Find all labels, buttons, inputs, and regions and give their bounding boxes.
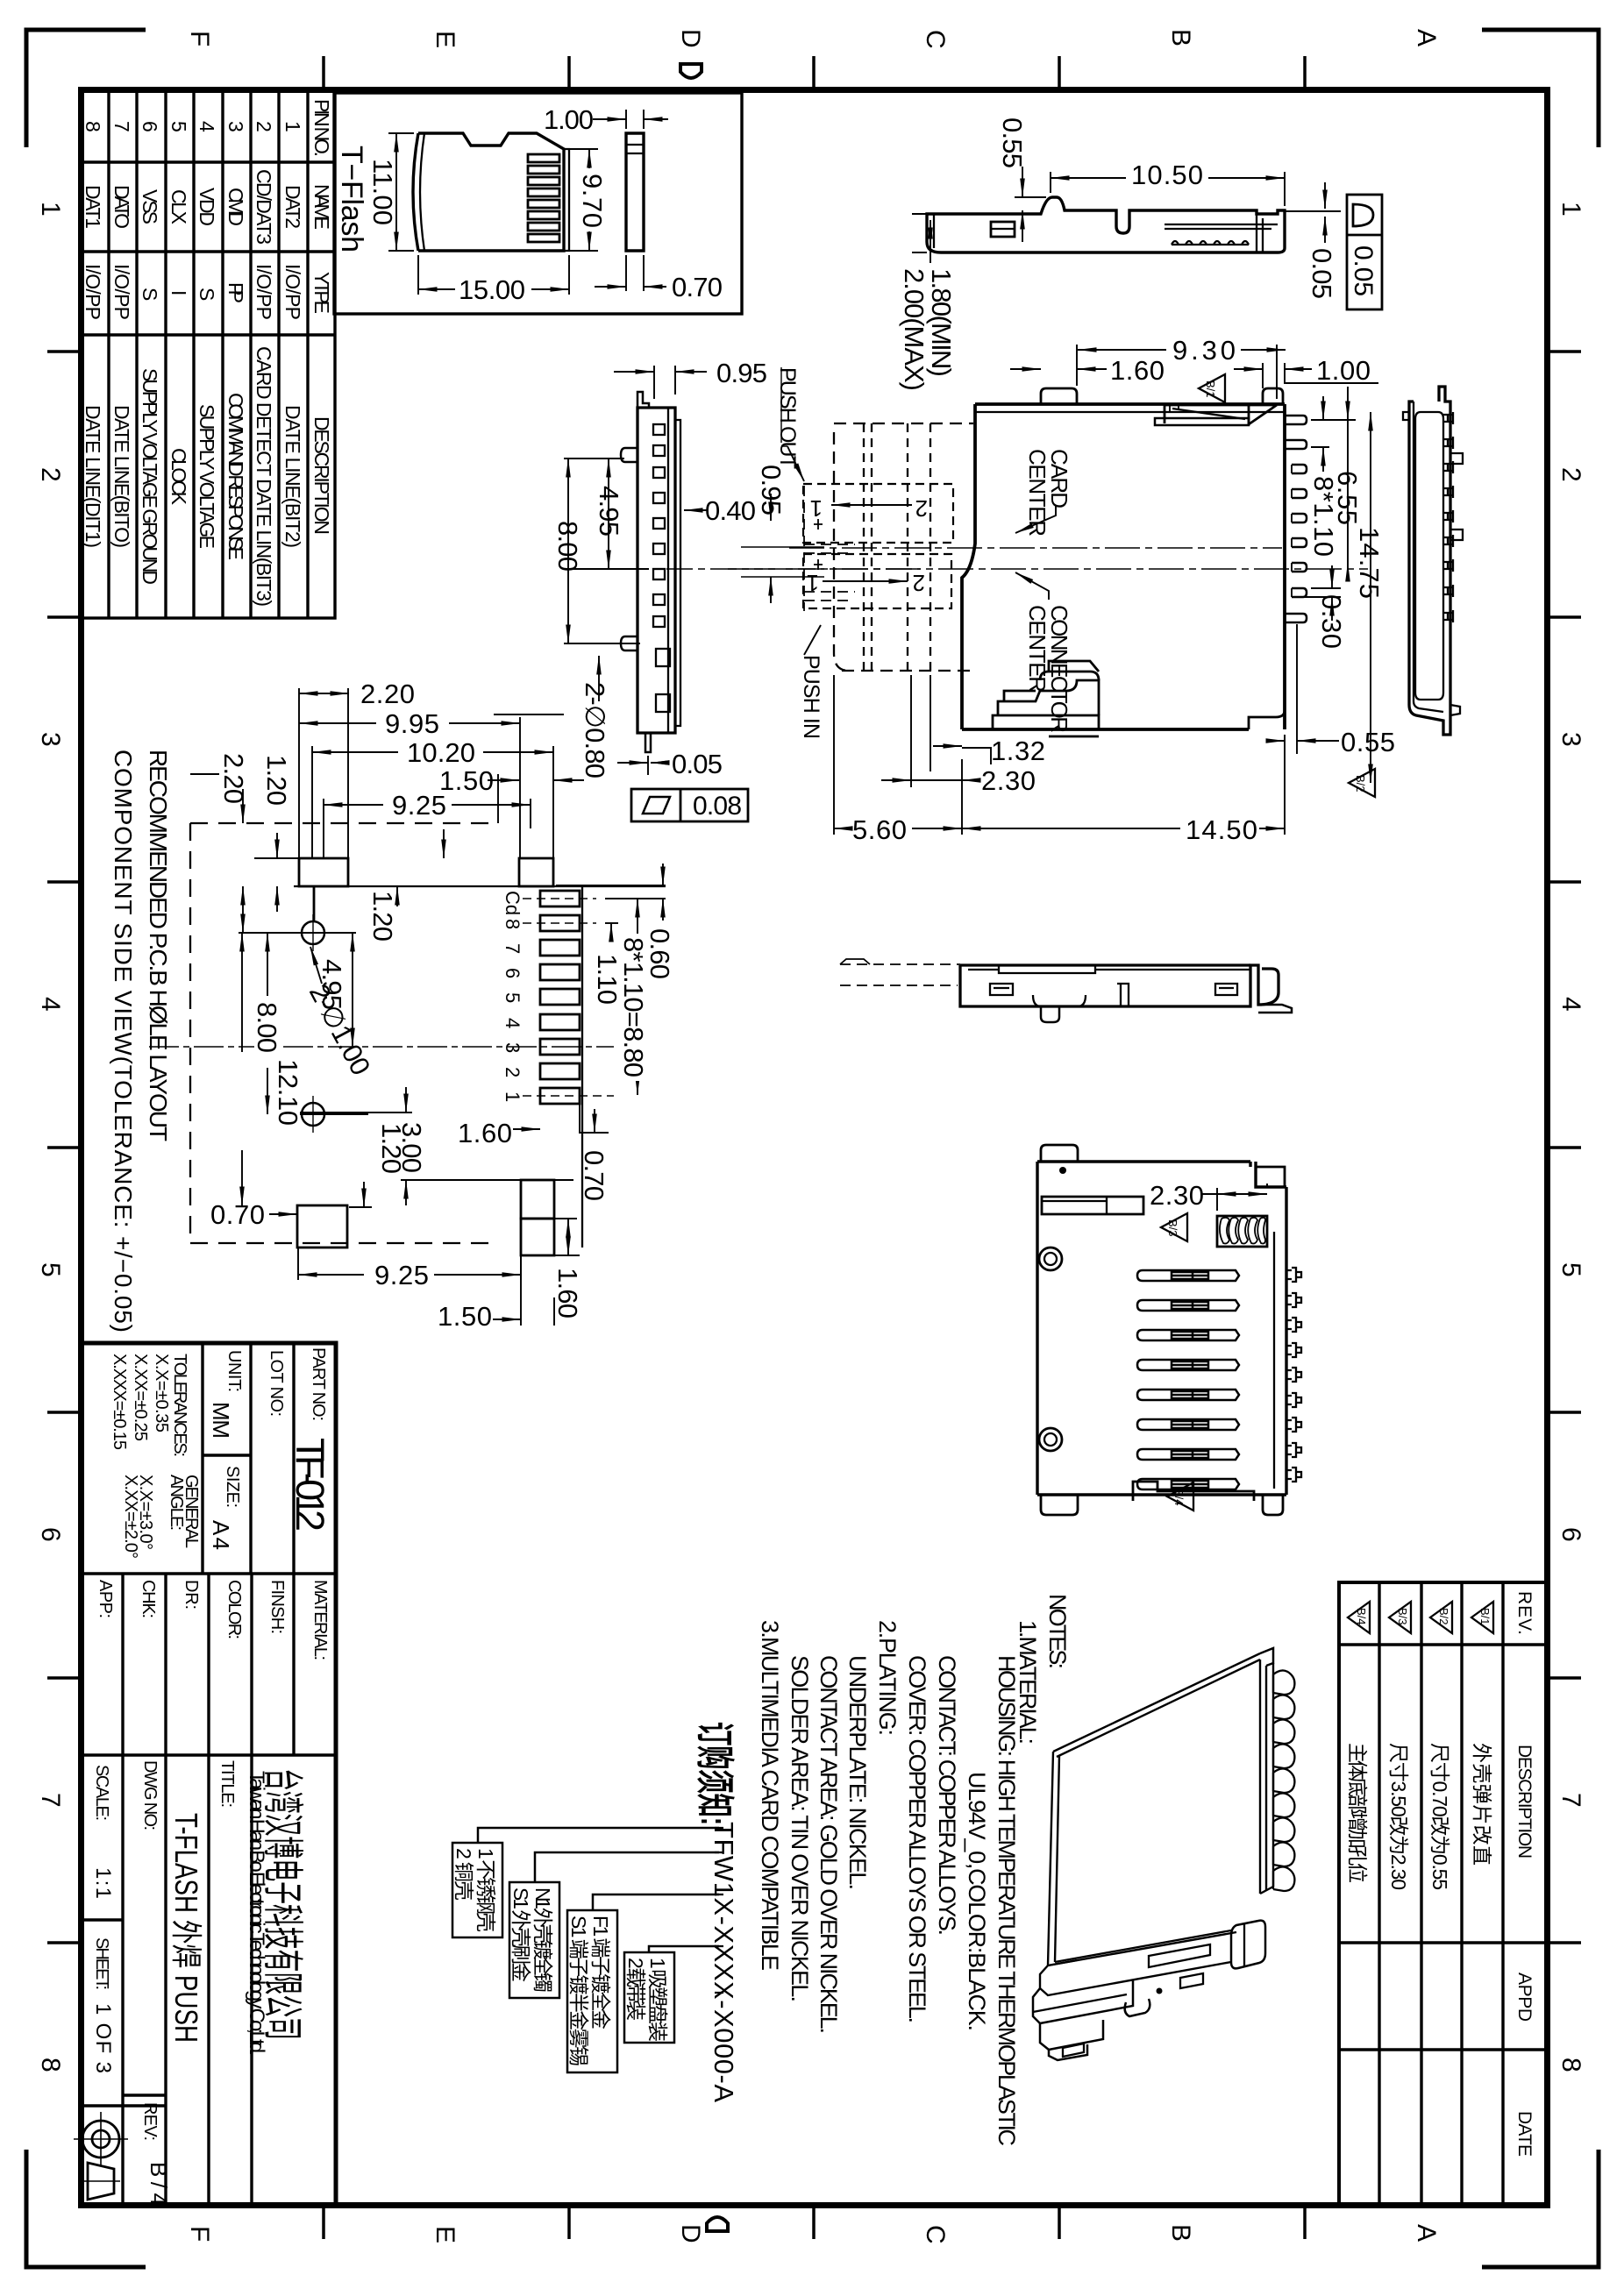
0.95 top [654,366,675,399]
svg-text:0.70: 0.70 [579,1150,609,1201]
svg-text:CONTACT: COPPER ALLOYS.: CONTACT: COPPER ALLOYS. [934,1655,960,1936]
svg-text:9.95: 9.95 [385,708,439,739]
dims for side view B [564,366,921,655]
small dot [1059,1167,1066,1174]
2.20 top [299,693,349,694]
svg-text:HOUSING: HIGH TEMPERATURE THER: HOUSING: HIGH TEMPERATURE THERMOPLASTIC [994,1655,1020,2146]
svg-text:2-∅0.80: 2-∅0.80 [580,682,610,778]
latch flap top right [1165,405,1277,425]
svg-text:I: I [167,290,190,295]
svg-text:F: F [185,31,214,46]
2-Φ0.80 and 0.05 dims below side view B [617,756,668,775]
svg-text:VDD: VDD [196,188,218,226]
svg-text:0.95: 0.95 [716,358,767,388]
svg-text:5.60: 5.60 [852,814,907,845]
bottom right foot [1231,1921,1265,1969]
box 1 [452,1843,502,1937]
svg-text:DR:: DR: [182,1580,201,1610]
svg-text:8*1.10: 8*1.10 [1308,476,1339,557]
corner mark top-right [1482,30,1599,147]
svg-text:B/4: B/4 [146,2162,172,2206]
main strip [637,408,675,733]
svg-text:S: S [196,288,218,301]
svg-text:TF-012: TF-012 [288,1438,332,1532]
bottom rail [1040,1962,1231,1995]
svg-text:C: C [921,2225,950,2244]
scale / dwg / sheet [91,1760,172,2206]
0.70 bottom left [269,1213,297,1215]
svg-text:1: 1 [36,202,65,217]
top right flag [1260,1648,1273,1666]
svg-text:CONTACT AREA: GOLD OVER NICKEL: CONTACT AREA: GOLD OVER NICKEL. [816,1655,842,2034]
1.60 bottom right vertical [554,1219,580,1255]
svg-text:4: 4 [196,121,218,132]
svg-text:S1 端子镀半金雾锡: S1 端子镀半金雾锡 [567,1916,590,2066]
svg-text:5: 5 [502,992,524,1003]
svg-text:DAT2: DAT2 [281,185,304,229]
inner window [991,222,1015,237]
body outline [962,404,975,729]
svg-text:E: E [431,2226,459,2243]
svg-text:1 不锈钢壳: 1 不锈钢壳 [474,1848,497,1932]
box 4 [624,1952,674,2043]
svg-text:10.50: 10.50 [1131,160,1203,190]
band 1 columns [203,1343,294,1574]
0.40 [684,509,707,511]
svg-text:B/3: B/3 [1396,1608,1409,1625]
6.55 [1311,419,1356,421]
right body edge with pins [1283,404,1286,729]
svg-text:CLOCK: CLOCK [167,448,190,506]
center lines [728,548,1368,569]
zone ticks top [324,56,1305,87]
svg-text:1.20: 1.20 [367,891,398,942]
card fingers [528,154,559,242]
svg-text:3: 3 [1556,732,1585,747]
svg-text:DATE LINE(BIT2): DATE LINE(BIT2) [281,405,304,548]
4.95 / 8.00 [564,458,649,569]
right side view pins [1443,412,1463,622]
svg-text:订购须知:: 订购须知: [693,1722,736,1825]
svg-text:B/1: B/1 [1478,1608,1492,1625]
svg-text:I/O/PP: I/O/PP [253,264,275,320]
10.20 [312,751,398,753]
svg-text:2 载带装: 2 载带装 [624,1958,647,2021]
svg-text:外壳弹片改直: 外壳弹片改直 [1471,1743,1493,1866]
svg-text:1.50: 1.50 [439,765,494,796]
svg-text:B/4: B/4 [1355,1608,1368,1625]
4.95 [352,933,353,943]
svg-text:0.05: 0.05 [672,749,723,779]
PCB dims [190,688,609,1326]
1.60 mid right [513,1128,540,1130]
svg-text:2.PLATING:: 2.PLATING: [874,1620,901,1736]
dashed centerlines through pads [149,899,614,1096]
svg-text:UNDERPLATE: NICKEL.: UNDERPLATE: NICKEL. [844,1655,871,1890]
svg-text:B/4: B/4 [1172,1489,1186,1506]
svg-text:9.25: 9.25 [392,790,446,821]
svg-text:MM: MM [208,1402,234,1439]
svg-text:1.00: 1.00 [544,104,594,135]
svg-text:ANGLE:: ANGLE: [167,1475,186,1531]
svg-text:B/3: B/3 [1166,1219,1179,1237]
svg-text:1.60: 1.60 [458,1118,512,1148]
flatness feature control frame [1347,195,1382,309]
5.60 / 14.50 [834,675,1285,835]
svg-text:DAT1: DAT1 [82,185,104,229]
svg-text:6: 6 [1556,1527,1585,1542]
svg-text:B: B [1166,2224,1195,2242]
dim 11.00 [388,133,414,251]
9.25 bottom [298,1248,521,1280]
svg-text:DESCRIPTION: DESCRIPTION [310,416,333,535]
B/1 triangle [1199,374,1225,402]
svg-text:0.08: 0.08 [693,792,742,821]
svg-text:8.00: 8.00 [552,521,583,572]
right inner edge + pins [1273,1232,1275,1489]
svg-text:DATE: DATE [1514,2111,1535,2157]
1.20 left (pad height) [254,857,298,859]
corner mark top-left [26,30,146,147]
mounting holes [1039,1248,1062,1270]
svg-text:C: C [921,30,950,49]
dashed card for side view B [804,486,855,611]
svg-text:SOLDER AREA: TIN OVER NICKEL.: SOLDER AREA: TIN OVER NICKEL. [787,1655,813,2002]
corner mark bottom-right [1482,2150,1599,2267]
corner mark bottom-left [26,2150,146,2267]
push out leader [787,446,804,481]
svg-text:1 吸塑盘装: 1 吸塑盘装 [646,1958,669,2042]
svg-text:COVER: COPPER ALLOYS OR STEEL.: COVER: COPPER ALLOYS OR STEEL. [904,1655,930,2023]
top-left slot [1042,1197,1143,1214]
svg-text:DATO: DATO [110,185,133,229]
svg-text:F: F [185,2226,214,2242]
svg-text:UNIT:: UNIT: [224,1350,244,1392]
svg-text:UL94V_0,COLOR:BLACK.: UL94V_0,COLOR:BLACK. [964,1772,990,2031]
centerline [579,568,921,570]
svg-text:FINSH:: FINSH: [267,1580,287,1634]
svg-text:NOTES:: NOTES: [1044,1594,1071,1669]
svg-text:COMPONENT SIDE VIEW(TOLERANCE:: COMPONENT SIDE VIEW(TOLERANCE: +/−0.05) [110,750,137,1333]
svg-text:X.XXX=±0.15: X.XXX=±0.15 [110,1354,129,1450]
svg-text:CARD DETECT DATE LIN(BIT3): CARD DETECT DATE LIN(BIT3) [253,346,275,607]
pins right side of main view [1285,416,1307,622]
svg-text:PART NO:: PART NO: [309,1347,328,1421]
svg-text:2.00(MAX): 2.00(MAX) [899,268,930,391]
svg-text:10.20: 10.20 [407,737,475,768]
svg-text:1.80(MIN): 1.80(MIN) [926,268,957,377]
svg-text:Cd: Cd [502,891,524,915]
svg-text:11.00: 11.00 [367,159,398,225]
svg-text:CLX: CLX [167,189,190,224]
svg-text:APPD: APPD [1514,1973,1535,2022]
svg-text:7: 7 [1556,1793,1585,1808]
svg-text:1.10: 1.10 [592,954,623,1005]
outline [1037,1162,1286,1495]
svg-text:3: 3 [224,121,247,132]
dim 9.70 [569,149,598,251]
svg-text:6: 6 [139,121,161,132]
svg-text:2: 2 [913,570,925,596]
dashed body outline [190,823,491,1243]
svg-text:6: 6 [36,1527,65,1542]
svg-text:MATERIAL:: MATERIAL: [310,1580,330,1660]
svg-text:1.60: 1.60 [1110,355,1165,386]
14.75 [1370,412,1371,783]
corner feet [1041,1145,1078,1162]
svg-text:TFW1X-XXXX-X000-A: TFW1X-XXXX-X000-A [709,1822,739,2102]
svg-text:2.30: 2.30 [1150,1180,1204,1211]
parallelism feature control frame [631,789,748,821]
9.95 [299,722,376,724]
svg-text:0.95: 0.95 [756,465,787,515]
svg-text:1 OF 3: 1 OF 3 [91,2003,115,2073]
svg-text:8: 8 [502,919,524,929]
svg-text:1: 1 [281,121,304,132]
svg-text:1.50: 1.50 [438,1301,492,1332]
push position dashed boxes [803,484,953,608]
lid plate with spring teeth [1165,224,1278,229]
svg-text:2: 2 [1556,467,1585,482]
0.30 [1292,588,1341,597]
svg-text:0.05: 0.05 [1307,248,1337,299]
dim 1.80/2.00 [912,214,927,252]
svg-text:3: 3 [36,732,65,747]
svg-text:SIZE:: SIZE: [223,1466,242,1508]
svg-text:0.70: 0.70 [210,1199,265,1230]
svg-text:YTPE: YTPE [310,272,333,314]
svg-text:5: 5 [36,1262,65,1277]
svg-text:1.20: 1.20 [261,755,292,806]
dim 15.00 [418,255,569,295]
1.20 bottom [349,1206,372,1208]
svg-text:0.40: 0.40 [705,495,756,526]
dim 0.70 [626,255,644,291]
svg-text:0.05: 0.05 [1349,245,1378,296]
svg-text:APP:: APP: [96,1580,115,1618]
svg-text:1: 1 [1556,202,1585,217]
svg-text:2.30: 2.30 [981,765,1036,796]
svg-text:2.20: 2.20 [218,753,249,804]
svg-text:CD/DAT3: CD/DAT3 [253,169,275,245]
svg-text:4: 4 [1556,997,1585,1012]
svg-text:14.50: 14.50 [1186,814,1257,845]
svg-text:TOLERANCES:: TOLERANCES: [170,1354,189,1457]
svg-text:RECOMMENDED P.C.B HØLE LAYOUT: RECOMMENDED P.C.B HØLE LAYOUT [145,750,172,1141]
svg-text:3.MULTIMEDIA CARD COMPATIBLE: 3.MULTIMEDIA CARD COMPATIBLE [757,1620,783,1971]
svg-text:2: 2 [36,467,65,482]
zone ticks right [1550,352,1581,1943]
svg-text:4: 4 [36,997,65,1012]
svg-text:1: 1 [810,495,823,522]
svg-text:1:1: 1:1 [91,1867,115,1899]
svg-text:SUPPLY VOLTAGE GROUND: SUPPLY VOLTAGE GROUND [139,368,161,585]
box 2 [509,1882,559,1998]
1.20 mid (right pad) [396,886,398,906]
cover panel [1053,1653,1260,1757]
dashed card in main view [834,423,973,671]
bottom-left step notch [1133,1482,1254,1501]
svg-text:SHEET:: SHEET: [92,1937,111,1990]
svg-text:REV:: REV: [140,2102,160,2141]
svg-text:2: 2 [253,121,275,132]
center tab below rail [1125,1999,1150,2016]
svg-text:S1 外壳刷金: S1 外壳刷金 [509,1887,532,1982]
svg-text:SCALE:: SCALE: [92,1765,111,1821]
body outline [927,197,1285,252]
svg-text:8: 8 [36,2058,65,2072]
B/3 triangle [1161,1213,1187,1241]
zone ticks bottom [324,2208,1305,2239]
svg-text:PIN NO.: PIN NO. [310,99,333,157]
svg-text:B/2: B/2 [1354,775,1367,793]
main view dims [834,345,1378,835]
svg-text:T−Flash: T−Flash [335,146,368,252]
svg-text:X.XX=±2.0°: X.XX=±2.0° [121,1475,140,1559]
svg-text:9.70: 9.70 [577,174,608,228]
8.00 [267,933,268,1114]
svg-text:PUSH IN: PUSH IN [799,655,823,739]
B/2 triangle below 0.55 [1349,769,1375,797]
heading text [110,750,172,1333]
svg-text:9.30: 9.30 [1172,335,1236,366]
pad area dims right: 0.60 / 8*1.10=8.80 / 1.10 [556,864,666,1095]
horizontal hole ref line [239,932,356,934]
bottom latch mechanism [993,715,1099,729]
inner pin squares [653,424,670,712]
top pad row [299,858,348,886]
B/4 triangle [1167,1482,1193,1511]
spring [1217,1216,1267,1247]
box 3 [567,1910,617,2072]
svg-text:7: 7 [502,943,524,954]
top tabs [1041,388,1077,404]
bottom tail [645,733,651,752]
dim 0.55 [1015,196,1046,198]
svg-text:X.XX=±0.25: X.XX=±0.25 [131,1354,150,1441]
svg-text:PUSH OUT: PUSH OUT [775,367,800,469]
side view sliver [626,133,644,251]
svg-text:8.00: 8.00 [252,1002,282,1053]
svg-text:PP: PP [224,282,247,303]
8*1.10 [1311,446,1329,448]
svg-text:D: D [676,2224,705,2243]
svg-text:N1 外壳镀全镯: N1 外壳镀全镯 [531,1887,554,1993]
svg-text:0.70: 0.70 [672,272,723,302]
svg-text:A: A [1412,29,1441,46]
12.10 [241,933,243,1205]
0.55 bottom [1296,624,1298,754]
svg-text:A: A [1412,2224,1441,2242]
svg-text:8: 8 [82,121,104,132]
svg-text:4: 4 [502,1018,524,1028]
0.70 right vertical [580,1104,609,1134]
2.30 [911,675,930,787]
center mark bottom [707,2217,728,2231]
hole2 crosshair ref [282,1113,368,1115]
bottom pads [297,1205,347,1248]
card outline [418,133,564,251]
svg-text:1.60: 1.60 [552,1268,583,1319]
svg-text:DESCRIPTION: DESCRIPTION [1514,1745,1535,1859]
0.95 card offset [770,494,772,521]
dim 10.50 [1051,172,1285,206]
dim 0.05 right [1285,210,1341,212]
svg-text:8: 8 [1556,2058,1585,2072]
band 2/3 columns [123,1574,252,2206]
svg-text:B: B [1166,29,1195,46]
svg-text:主体底部增加孔位: 主体底部增加孔位 [1346,1743,1369,1883]
svg-text:9.25: 9.25 [374,1260,429,1290]
svg-text:LOT NO:: LOT NO: [267,1350,286,1417]
svg-text:I/O/PP: I/O/PP [82,264,104,320]
pad labels [502,891,524,1102]
1.50 bottom [521,1255,554,1326]
signal pads column [540,891,580,1104]
push in leader [804,625,821,655]
1.32 [962,748,991,764]
1.50 [497,774,499,823]
9.30 [1077,345,1285,399]
svg-text:COLOR:: COLOR: [224,1580,244,1639]
1.00 right [1262,363,1264,388]
zone ticks left [47,352,78,1943]
svg-text:14.75: 14.75 [1354,527,1385,599]
svg-text:X.X=±0.35: X.X=±0.35 [152,1354,171,1432]
svg-text:7: 7 [110,121,133,132]
svg-text:15.00: 15.00 [459,274,525,305]
band boundaries [82,1572,336,1575]
svg-text:CENTER: CENTER [1024,605,1051,693]
svg-text:T-FLASH 外焊 PUSH: T-FLASH 外焊 PUSH [168,1813,204,2043]
slots on rail [1149,1944,1210,1967]
projection symbol [74,2112,128,2200]
svg-text:3.00: 3.00 [396,1122,427,1173]
svg-text:4.95: 4.95 [594,486,624,537]
svg-text:I/O/PP: I/O/PP [110,264,133,320]
rev descriptions [1346,1743,1493,1890]
svg-text:DATE LINE(BITO): DATE LINE(BITO) [110,405,133,548]
svg-text:1.00: 1.00 [1316,355,1371,386]
svg-text:尺寸3.50改为2.30: 尺寸3.50改为2.30 [1387,1743,1410,1890]
svg-text:3: 3 [502,1042,524,1053]
svg-text:DWG NO:: DWG NO: [140,1760,160,1830]
svg-text:1.32: 1.32 [991,736,1045,766]
svg-text:5: 5 [167,121,190,132]
svg-text:1: 1 [502,1091,524,1102]
svg-text:A4: A4 [208,1520,234,1550]
svg-text:NAME: NAME [310,184,333,230]
svg-text:F1 端子镀全金: F1 端子镀全金 [589,1916,612,2029]
9.25 top [324,804,383,806]
svg-text:2.20: 2.20 [360,679,415,709]
svg-text:B/2: B/2 [1437,1608,1450,1625]
holes [295,914,331,1133]
svg-text:0.55: 0.55 [1341,727,1395,757]
svg-text:S: S [139,288,161,301]
svg-text:TITLE:: TITLE: [217,1760,237,1808]
hook pins [1273,1670,1294,1891]
top tab [637,392,649,408]
svg-text:CMD: CMD [224,188,247,226]
2.30 dim [1200,1184,1267,1211]
rev triangles [1348,1602,1493,1633]
svg-text:DATE LINE(DIT1): DATE LINE(DIT1) [82,405,104,548]
svg-text:SUPPLY VOLTAGE: SUPPLY VOLTAGE [196,404,218,549]
left bumps (pins) [621,448,637,462]
svg-text:E: E [431,31,459,48]
svg-text:D: D [676,29,705,48]
